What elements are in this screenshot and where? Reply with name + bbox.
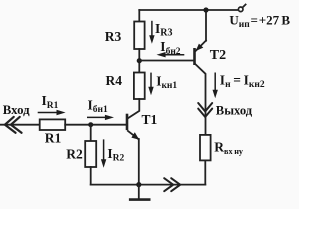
wire T2 emitter vertical [205,10,207,41]
wire T2 emitter diagonal [196,41,206,51]
wire Rvx bottom lead [204,160,206,184]
node base junction [88,122,93,127]
wire R1 to T1 base [65,124,127,126]
resistor R4 [134,73,145,100]
arrow I_R3 [149,21,154,44]
transistor T2 emitter arrowhead [196,44,204,51]
arrow chevron input [5,117,22,133]
wire base of T2 [139,60,194,62]
arrow chevron bottom rail [164,178,180,191]
ground [138,185,140,200]
svg-text:R1: R1 [45,130,62,145]
wire T2 collector [196,64,206,134]
svg-text:R4: R4 [106,73,123,88]
wire R3 bottom lead [138,49,140,73]
node emitter junction [136,182,141,187]
resistor R2 [85,141,96,167]
terminal Uip circle [238,7,243,12]
wire T1 emitter diagonal [128,131,139,139]
wire top rail [139,9,238,11]
svg-text:Выход: Выход [216,103,253,117]
wire R2 top lead [90,125,92,141]
transistor T2 base bar [193,49,196,63]
svg-text:R3: R3 [105,29,122,44]
svg-text:T1: T1 [142,112,158,127]
arrow I_R1 [38,110,66,115]
resistor R1 [40,119,65,130]
node top rail junction [203,7,208,12]
wire bottom rail [91,184,206,186]
transistor T1 base bar [126,115,129,129]
arrow I_bn1 [87,115,114,120]
wire T1 collector [128,99,139,118]
svg-text:Uип=+27В: Uип=+27В [229,13,290,31]
wire R3 top lead [138,10,140,22]
svg-text:T2: T2 [210,48,226,63]
arrow I_R2 [101,139,106,167]
arrow chevron output [198,103,212,117]
node junction R3-R4 [137,58,142,63]
transistor T1 emitter arrowhead [131,132,139,139]
arrow I_bn2 [157,52,185,57]
wire R2 bottom lead [90,167,92,185]
svg-text:Вход: Вход [3,103,30,117]
arrow I_n [213,73,218,99]
wire input [0,124,40,126]
terminal Uip tick [242,5,245,8]
svg-text:R2: R2 [66,146,83,161]
wire T1 emitter vertical [138,139,140,185]
resistor R3 [134,22,144,50]
resistor Rvx [200,135,211,161]
arrow I_kn1 [148,73,153,96]
